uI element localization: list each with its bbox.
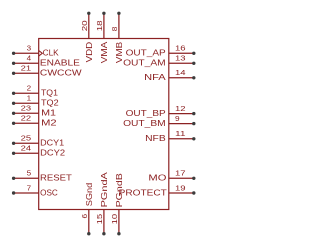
svg-text:CWCCW: CWCCW xyxy=(40,68,82,78)
svg-text:DCY2: DCY2 xyxy=(40,148,65,158)
pin 9 OUT_BM wire xyxy=(169,123,194,125)
svg-text:RESET: RESET xyxy=(40,173,72,183)
pin 8 VMB wire xyxy=(118,13,120,38)
svg-text:17: 17 xyxy=(175,169,186,178)
svg-text:16: 16 xyxy=(175,44,186,53)
pin 18 VMA wire xyxy=(103,13,105,38)
svg-text:9: 9 xyxy=(175,114,180,123)
pin 16 end dot xyxy=(192,52,195,55)
pin 3 CLK wire xyxy=(14,52,39,54)
svg-text:19: 19 xyxy=(175,183,186,192)
pin 1 end dot xyxy=(12,102,15,105)
pin 14 NFA wire xyxy=(169,77,194,79)
svg-text:TQ1: TQ1 xyxy=(41,88,58,98)
pin 12 end dot xyxy=(192,112,195,115)
pin 10 end dot xyxy=(117,232,120,235)
svg-text:25: 25 xyxy=(21,134,32,143)
svg-text:14: 14 xyxy=(175,68,186,77)
svg-text:MO: MO xyxy=(148,173,166,183)
pin 13 end dot xyxy=(192,62,195,65)
svg-text:15: 15 xyxy=(95,214,104,225)
svg-text:7: 7 xyxy=(27,183,32,192)
pin 16 OUT_AP wire xyxy=(169,52,194,54)
svg-text:10: 10 xyxy=(110,214,119,225)
pin 20 end dot xyxy=(87,12,90,15)
pin 9 end dot xyxy=(192,122,195,125)
svg-text:VMA: VMA xyxy=(99,41,109,63)
pin 25 end dot xyxy=(12,142,15,145)
svg-text:OUT_BP: OUT_BP xyxy=(126,108,166,118)
pin 23 end dot xyxy=(12,112,15,115)
svg-text:20: 20 xyxy=(80,20,89,31)
svg-text:M1: M1 xyxy=(41,108,56,118)
svg-text:11: 11 xyxy=(175,129,186,138)
svg-text:4: 4 xyxy=(27,54,32,63)
IC body outline xyxy=(39,39,169,210)
pin 21 CWCCW wire xyxy=(14,72,39,74)
svg-text:8: 8 xyxy=(110,27,119,32)
pin 14 end dot xyxy=(192,76,195,79)
pin 3 end dot xyxy=(12,52,15,55)
svg-text:21: 21 xyxy=(21,64,32,73)
svg-text:OUT_BM: OUT_BM xyxy=(123,118,166,128)
svg-text:PROTECT: PROTECT xyxy=(119,187,167,197)
pin 18 end dot xyxy=(102,12,105,15)
svg-text:18: 18 xyxy=(95,20,104,31)
pin 19 PROTECT wire xyxy=(169,192,194,194)
pin 17 end dot xyxy=(192,177,195,180)
pin 11 end dot xyxy=(192,137,195,140)
svg-text:SGnd: SGnd xyxy=(84,183,94,207)
svg-text:22: 22 xyxy=(21,114,32,123)
pin 13 OUT_AM wire xyxy=(169,62,194,64)
pin 2 TQ1 wire xyxy=(14,92,39,94)
svg-text:2: 2 xyxy=(27,84,32,93)
svg-text:PGndA: PGndA xyxy=(99,172,109,208)
pin 22 M2 wire xyxy=(14,122,39,124)
clock input wedge on CLK pin xyxy=(39,51,43,57)
pin 19 end dot xyxy=(192,191,195,194)
svg-text:12: 12 xyxy=(175,104,186,113)
pin 15 PGndA wire xyxy=(103,210,105,234)
pin 12 OUT_BP wire xyxy=(169,113,194,115)
pin 2 end dot xyxy=(12,92,15,95)
pin 22 end dot xyxy=(12,122,15,125)
pin 6 SGnd wire xyxy=(88,210,90,234)
pin 25 DCY1 wire xyxy=(14,142,39,144)
pin 23 M1 wire xyxy=(14,112,39,114)
pin 5 RESET wire xyxy=(14,177,39,179)
svg-text:3: 3 xyxy=(27,44,32,53)
pin 7 end dot xyxy=(12,191,15,194)
svg-text:1: 1 xyxy=(27,94,32,103)
svg-text:OUT_AP: OUT_AP xyxy=(126,48,166,58)
pin 6 end dot xyxy=(87,232,90,235)
pin 20 VDD wire xyxy=(88,13,90,38)
svg-text:23: 23 xyxy=(21,104,32,113)
pin 4 ENABLE wire xyxy=(14,62,39,64)
pin 17 MO wire xyxy=(169,177,194,179)
pin 11 NFB wire xyxy=(169,138,194,140)
svg-text:OSC: OSC xyxy=(40,187,58,197)
svg-text:13: 13 xyxy=(175,54,186,63)
pin 4 end dot xyxy=(12,62,15,65)
pin 7 OSC wire xyxy=(14,192,39,194)
pin 24 end dot xyxy=(12,152,15,155)
svg-text:VDD: VDD xyxy=(84,42,94,63)
svg-text:24: 24 xyxy=(21,144,32,153)
svg-text:DCY1: DCY1 xyxy=(40,138,64,148)
svg-text:NFB: NFB xyxy=(145,133,166,143)
pin 10 PGndB wire xyxy=(118,210,120,234)
svg-text:TQ2: TQ2 xyxy=(41,98,59,108)
svg-text:NFA: NFA xyxy=(144,72,166,82)
svg-text:M2: M2 xyxy=(41,118,57,128)
svg-text:OUT_AM: OUT_AM xyxy=(123,58,166,68)
svg-text:5: 5 xyxy=(27,169,32,178)
pin 21 end dot xyxy=(12,72,15,75)
pin 15 end dot xyxy=(102,232,105,235)
svg-text:VMB: VMB xyxy=(114,41,124,63)
pin 8 end dot xyxy=(117,12,120,15)
svg-text:PGndB: PGndB xyxy=(114,173,124,208)
svg-text:ENABLE: ENABLE xyxy=(40,58,80,68)
svg-text:CLK: CLK xyxy=(43,48,59,58)
svg-text:6: 6 xyxy=(80,214,89,219)
pin 5 end dot xyxy=(12,177,15,180)
pin 24 DCY2 wire xyxy=(14,152,39,154)
pin 1 TQ2 wire xyxy=(14,102,39,104)
